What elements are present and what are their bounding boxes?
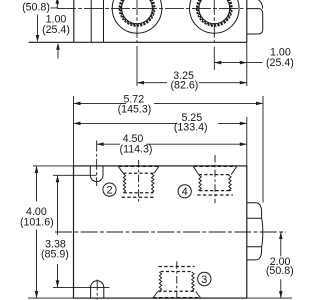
port 2 thread ring — [198, 0, 230, 25]
port 1 vertical centerline — [136, 0, 138, 43]
svg-text:4: 4 — [182, 186, 188, 198]
svg-text:(25.4): (25.4) — [42, 24, 70, 36]
svg-text:3: 3 — [201, 274, 207, 286]
5.25 dim line — [74, 122, 247, 124]
5.72 dim line — [74, 102, 264, 104]
port 1 inner circle — [122, 0, 153, 24]
arrowheads front — [74, 102, 81, 106]
mounting slot through-lines (top view) — [91, 0, 103, 42]
horizontal centerline through ports — [57, 7, 244, 9]
svg-text:(133.4): (133.4) — [174, 122, 208, 134]
top view block outline — [29, 0, 247, 42]
label circle 3 — [198, 272, 211, 285]
front view block outline — [74, 166, 247, 298]
top mounting slot — [90, 166, 103, 182]
dim 1.00/25.4 left dim line — [37, 15, 39, 39]
port 2 vertical centerline — [213, 0, 215, 43]
svg-text:(82.6): (82.6) — [171, 79, 199, 91]
2.00 dim line + ext — [247, 232, 292, 298]
cavity port 4 (hidden) — [193, 165, 236, 167]
port 2 inner circle — [199, 0, 230, 24]
ext line right edge — [246, 117, 248, 166]
label circle 4 — [178, 185, 191, 198]
arrowheads top — [56, 0, 60, 4]
port 1 thread ring — [121, 0, 153, 25]
svg-text:(145.3): (145.3) — [118, 104, 152, 116]
4.50 dim line — [97, 143, 247, 145]
svg-text:(101.6): (101.6) — [20, 216, 54, 228]
svg-text:(114.3): (114.3) — [120, 143, 153, 155]
svg-text:(50.8): (50.8) — [22, 1, 50, 13]
svg-text:(50.8): (50.8) — [266, 265, 294, 277]
right edge extension below top view — [246, 42, 248, 86]
ext line plug tip — [262, 96, 264, 203]
port 1 outer circle — [112, 0, 162, 33]
side plug (hex head, side view) — [247, 203, 263, 260]
port 2 outer circle — [190, 0, 240, 33]
svg-text:2: 2 — [106, 185, 112, 197]
3.38 dim line + ext — [53, 175, 109, 287]
dim (50.8) leader — [51, 3, 59, 8]
bottom mounting slot — [91, 281, 104, 298]
svg-text:(85.9): (85.9) — [41, 249, 69, 261]
side cavity horizontal centerline — [55, 231, 286, 233]
svg-text:(25.4): (25.4) — [266, 57, 294, 69]
outside arrow below top view — [57, 47, 59, 59]
3.25 dim line — [137, 82, 247, 84]
label circle 2 — [103, 183, 116, 196]
bottom slot centerline — [96, 280, 98, 300]
top slot centerline — [96, 141, 98, 187]
cavity port 2 (hidden) — [119, 165, 159, 167]
port2-to-edge 1.00 dim line — [213, 47, 215, 70]
cavity port 3 (hidden, bottom) — [159, 266, 195, 268]
ext line left (5.72/5.25) — [73, 96, 75, 166]
side plug seen in top view — [259, 0, 263, 9]
4.00 dim line + ext — [28, 166, 74, 298]
